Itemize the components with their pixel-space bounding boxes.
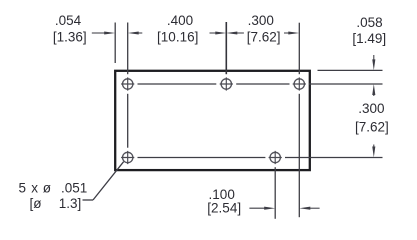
dim .300 arrow tail: [236, 32, 244, 34]
svg-text:[7.62]: [7.62]: [355, 120, 389, 135]
dim .300 vertical down arrow tail: [373, 145, 375, 148]
hole H5 (bottom-right) circle: [270, 152, 280, 162]
dim .400 arrow tail: [210, 32, 217, 34]
svg-text:x: x: [31, 181, 38, 196]
dim .400 arrow (right-pointing at col2): [215, 31, 226, 34]
svg-text:1.3]: 1.3]: [59, 196, 82, 211]
part outline rectangle: [115, 71, 310, 170]
dim .100 right arrow tail: [309, 207, 319, 209]
svg-text:[ø: [ø: [30, 196, 42, 211]
dim .100 arrow (right-pointing at col4): [264, 207, 275, 210]
leader for 5x hole callout: horizontal tail: [83, 199, 94, 201]
svg-text:.400: .400: [167, 13, 193, 28]
dim .054 leader line from text: [92, 32, 106, 34]
dim .054 arrow (right-pointing at left edge): [104, 31, 115, 34]
centerline col1 above H1 (extension to dims): [127, 23, 129, 75]
dim .300 right arrow tail: [284, 32, 289, 34]
hole H2 center mark: [220, 77, 233, 90]
dim .100 leader line from text: [249, 207, 265, 209]
centerline row2 H4-H5: [138, 157, 266, 159]
hole H5 center mark: [269, 151, 282, 164]
dim .300 arrow (right-pointing at col3): [288, 31, 299, 34]
leader for 5x hole callout: diagonal to H4: [93, 162, 124, 200]
hole H3 (top-right) circle: [294, 79, 304, 89]
dim .300 vertical down arrow at row2: [372, 147, 375, 158]
hole H2 (top-center) circle: [221, 79, 231, 89]
hole H4 center mark: [121, 151, 134, 164]
dim .054 arrow tail right of col1: [138, 32, 143, 34]
hole H4 (bottom-left) circle: [123, 152, 133, 162]
svg-text:.300: .300: [358, 101, 384, 116]
extension line left edge (for .054): [114, 23, 116, 64]
dim .300 arrow (left-pointing at col2): [226, 31, 237, 34]
svg-text:.300: .300: [248, 13, 274, 28]
centerline row1 H1-H2: [138, 83, 217, 85]
centerline col2 above H2 (extension to dims): [225, 22, 227, 74]
svg-text:ø: ø: [43, 181, 51, 196]
svg-text:.051: .051: [61, 181, 87, 196]
dim .300 vertical up arrow at row1: [372, 84, 375, 95]
centerline col4 below H5 down to bottom dim: [274, 167, 276, 219]
centerline col1 H1-H4: [127, 94, 129, 148]
dim .054/.400 arrow (left-pointing at col1): [128, 31, 139, 34]
svg-text:[10.16]: [10.16]: [157, 30, 198, 45]
extension line top edge to right (for .058): [318, 69, 383, 71]
centerline col3 below H3 down to bottom dim: [298, 94, 300, 217]
centerline row2 H5 to right margin: [285, 157, 383, 159]
hole H1 center mark: [121, 77, 134, 90]
centerline row1 H3 to right margin: [309, 83, 383, 85]
dim .100 arrow (left-pointing at col3): [299, 207, 310, 210]
dim .058 arrow tail: [373, 55, 375, 60]
hole H1 (top-left) circle: [123, 79, 133, 89]
svg-text:[2.54]: [2.54]: [207, 201, 241, 216]
svg-text:.058: .058: [356, 15, 382, 30]
hole H3 center mark: [293, 77, 306, 90]
dim .058 down arrow above top edge extension: [372, 59, 375, 70]
centerline row1 H2-H3: [236, 83, 289, 85]
svg-text:5: 5: [19, 181, 27, 196]
svg-text:.054: .054: [55, 13, 82, 28]
centerline col3 above H3 (extension to dims): [298, 23, 300, 74]
svg-text:[7.62]: [7.62]: [247, 29, 281, 44]
svg-text:[1.36]: [1.36]: [53, 29, 87, 44]
dim .300 vertical up arrow tail: [373, 94, 375, 96]
svg-text:[1.49]: [1.49]: [352, 31, 386, 46]
